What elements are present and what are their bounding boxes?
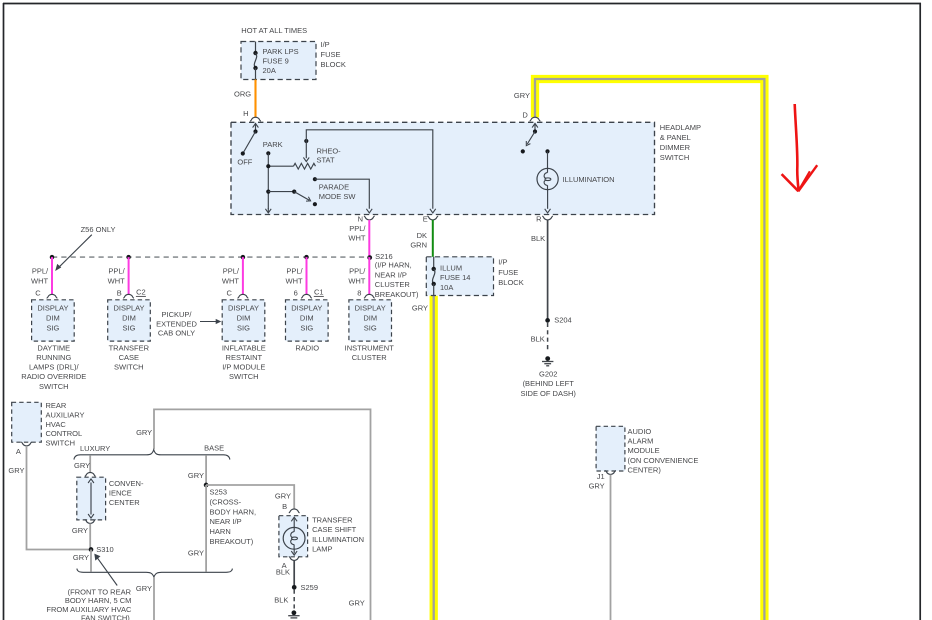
wire BLK transfer case lamp to splice S259 — [276, 561, 294, 588]
svg-text:CENTER: CENTER — [109, 498, 140, 507]
wire GRY audio alarm module off-page — [610, 475, 612, 620]
svg-text:PPL/: PPL/ — [223, 267, 240, 276]
pin D internal switch — [521, 123, 538, 153]
svg-text:DIMMER: DIMMER — [660, 143, 691, 152]
svg-text:GRY: GRY — [514, 91, 530, 100]
node junction on PPL/WHT bus (drop 2) — [126, 255, 131, 260]
pin H connector — [243, 109, 261, 121]
svg-text:8: 8 — [357, 289, 361, 298]
svg-text:HARN: HARN — [210, 527, 231, 536]
svg-text:I/P: I/P — [498, 258, 507, 267]
svg-text:RESTAINT: RESTAINT — [226, 353, 263, 362]
svg-text:SIG: SIG — [123, 324, 136, 333]
splice S216 — [367, 252, 419, 299]
svg-text:RADIO: RADIO — [295, 344, 319, 353]
svg-text:PPL/: PPL/ — [349, 224, 366, 233]
svg-text:GRY: GRY — [412, 303, 428, 312]
svg-text:G202: G202 — [539, 369, 557, 378]
svg-text:6: 6 — [294, 289, 298, 298]
svg-text:DISPLAY: DISPLAY — [37, 304, 68, 313]
svg-text:PARADE: PARADE — [319, 183, 349, 192]
label BLK (pin R) — [531, 234, 545, 243]
splice S204 — [545, 316, 571, 325]
splice S253 — [204, 483, 256, 546]
note PICKUP/EXTENDED CAB ONLY with arrow — [156, 310, 221, 338]
svg-text:GRY: GRY — [72, 526, 88, 535]
svg-text:GRY: GRY — [73, 553, 89, 562]
ground (below S259, cut at page edge) — [288, 610, 299, 618]
pin connector (convenience center top) — [85, 472, 96, 476]
svg-text:EXTENDED: EXTENDED — [156, 319, 197, 328]
svg-text:FUSE 9: FUSE 9 — [263, 57, 289, 66]
svg-text:LAMPS (DRL)/: LAMPS (DRL)/ — [29, 363, 80, 372]
svg-text:C2: C2 — [136, 287, 146, 296]
svg-text:BLK: BLK — [274, 595, 288, 604]
component box TRANSFER CASE SHIFT ILLUMINATION LAMP — [279, 516, 364, 557]
svg-text:HOT AT ALL TIMES: HOT AT ALL TIMES — [241, 26, 307, 35]
svg-text:CLUSTER: CLUSTER — [352, 353, 388, 362]
svg-text:SWITCH: SWITCH — [229, 372, 259, 381]
wire GRY S253 to merge brace — [188, 485, 206, 572]
svg-text:DK: DK — [417, 231, 427, 240]
svg-text:DIM: DIM — [300, 314, 314, 323]
svg-text:BREAKOUT): BREAKOUT) — [210, 537, 254, 546]
pin B connector (transfer case switch) — [117, 287, 146, 298]
svg-text:& PANEL: & PANEL — [660, 133, 691, 142]
svg-text:HVAC: HVAC — [46, 420, 67, 429]
wire GRY below merge brace — [136, 577, 154, 620]
svg-text:GRY: GRY — [275, 492, 291, 501]
svg-text:S216: S216 — [375, 252, 393, 261]
svg-text:R: R — [536, 214, 542, 223]
svg-text:SIG: SIG — [364, 324, 377, 333]
svg-text:J1: J1 — [597, 472, 605, 481]
svg-text:BODY HARN,: BODY HARN, — [210, 507, 257, 516]
svg-text:BREAKOUT): BREAKOUT) — [375, 290, 419, 299]
svg-text:B: B — [117, 289, 122, 298]
svg-text:ORG: ORG — [234, 90, 251, 99]
ground G202 — [520, 356, 576, 398]
svg-text:INSTRUMENT: INSTRUMENT — [345, 344, 395, 353]
label INFLATABLE … — [222, 344, 266, 382]
svg-text:FUSE: FUSE — [321, 50, 341, 59]
node junction on PPL/WHT bus (drop 1) — [50, 255, 55, 260]
svg-text:(I/P HARN,: (I/P HARN, — [375, 261, 412, 270]
wire GRY S310 to merge brace — [73, 550, 91, 572]
svg-text:GRY: GRY — [136, 428, 152, 437]
svg-text:RHEO-: RHEO- — [317, 146, 342, 155]
svg-text:RADIO OVERRIDE: RADIO OVERRIDE — [21, 372, 86, 381]
svg-text:DIM: DIM — [122, 314, 136, 323]
svg-text:10A: 10A — [440, 283, 453, 292]
annotation red arrow — [782, 104, 818, 191]
wire BLK S204 to ground (dashed) — [531, 323, 548, 352]
svg-text:DIM: DIM — [46, 314, 60, 323]
merge brace to single GRY wire — [77, 569, 233, 577]
label DK GRN — [410, 231, 427, 249]
split brace LUXURY/BASE — [74, 443, 230, 459]
pin B connector (transfer case lamp) — [282, 502, 299, 513]
parade contact to pin N — [313, 177, 372, 213]
svg-text:GRY: GRY — [188, 471, 204, 480]
svg-text:BLOCK: BLOCK — [498, 278, 523, 287]
node junction on PPL/WHT bus (drop 3) — [241, 255, 246, 260]
svg-text:GRY: GRY — [136, 584, 152, 593]
svg-text:LUXURY: LUXURY — [80, 444, 110, 453]
svg-text:SWITCH: SWITCH — [660, 153, 690, 162]
wire PPL/WHT drop to instrument cluster — [348, 257, 369, 294]
svg-text:PPL/: PPL/ — [349, 267, 366, 276]
pin J1 connector (audio alarm module) — [589, 471, 616, 491]
svg-text:(FRONT TO REAR: (FRONT TO REAR — [68, 587, 132, 596]
component box DISPLAY DIM SIG (inflatable restraint I/P module switch) — [222, 300, 265, 341]
svg-text:MODE SW: MODE SW — [319, 192, 357, 201]
headlamp & panel dimmer switch box — [231, 122, 655, 214]
svg-text:B: B — [282, 502, 287, 511]
svg-text:BLK: BLK — [531, 334, 545, 343]
svg-text:PPL/: PPL/ — [32, 267, 49, 276]
wire ORG fuse F9 to pin H — [234, 80, 256, 118]
headlamp switch OFF/PARK (from pin H) — [237, 123, 282, 166]
svg-text:GRN: GRN — [410, 240, 427, 249]
wire GRY highlighted (yellow) pin D to right edge run — [514, 79, 765, 620]
svg-text:20A: 20A — [263, 66, 276, 75]
svg-text:PPL/: PPL/ — [108, 267, 125, 276]
svg-text:WHT: WHT — [222, 277, 239, 286]
wire GRY base branch to splice S253 — [188, 455, 206, 485]
svg-text:ILLUMINATION: ILLUMINATION — [312, 535, 364, 544]
svg-text:A: A — [16, 447, 21, 456]
svg-text:Z56 ONLY: Z56 ONLY — [81, 225, 116, 234]
svg-text:SWITCH: SWITCH — [46, 438, 76, 447]
svg-text:BASE: BASE — [204, 443, 224, 452]
component box AUDIO ALARM MODULE — [596, 426, 698, 474]
pin N connector — [358, 214, 375, 223]
svg-text:AUXILIARY: AUXILIARY — [46, 411, 85, 420]
svg-text:N: N — [358, 214, 363, 223]
svg-text:DISPLAY: DISPLAY — [228, 304, 259, 313]
illumination lamp — [537, 149, 615, 213]
svg-text:GRY: GRY — [349, 598, 365, 607]
wire PPL/WHT drop to transfer case switch — [108, 257, 129, 294]
svg-text:MODULE: MODULE — [628, 446, 660, 455]
svg-text:I/P: I/P — [321, 40, 330, 49]
svg-text:SIG: SIG — [300, 324, 313, 333]
note (FRONT TO REAR BODY HARN…) with arrow to S310 — [46, 554, 132, 620]
svg-text:CLUSTER: CLUSTER — [375, 280, 411, 289]
svg-text:WHT: WHT — [348, 234, 365, 243]
feed label HOT AT ALL TIMES — [241, 26, 307, 35]
wire GRY rail to off-page right — [136, 409, 370, 620]
svg-text:S204: S204 — [554, 316, 572, 325]
svg-text:ILLUM: ILLUM — [440, 264, 462, 273]
pin E connector — [423, 214, 438, 223]
splice S259 — [292, 583, 318, 592]
svg-text:I/P MODULE: I/P MODULE — [222, 363, 265, 372]
I/P fuse block lower dashed box — [426, 257, 493, 296]
svg-text:RUNNING: RUNNING — [36, 353, 71, 362]
component box DISPLAY DIM SIG (transfer case switch) — [108, 300, 151, 341]
pin C connector (inflatable restraint I/P module switch) — [226, 289, 248, 299]
svg-text:CENTER): CENTER) — [628, 466, 662, 475]
component box DISPLAY DIM SIG (instrument cluster) — [349, 300, 392, 341]
svg-text:CONTROL: CONTROL — [46, 429, 83, 438]
svg-text:HEADLAMP: HEADLAMP — [660, 123, 701, 132]
svg-text:WHT: WHT — [108, 277, 125, 286]
wire PPL/WHT bus (dashed) — [52, 256, 369, 258]
wire GRY rear aux HVAC to splice S310 — [8, 446, 88, 550]
svg-text:WHT: WHT — [348, 277, 365, 286]
pin A connector (rear aux HVAC) — [16, 442, 32, 456]
label DAYTIME … — [21, 344, 86, 391]
svg-text:STAT: STAT — [317, 156, 335, 165]
svg-text:INFLATABLE: INFLATABLE — [222, 344, 266, 353]
svg-text:C1: C1 — [314, 287, 324, 296]
svg-text:FUSE 14: FUSE 14 — [440, 273, 470, 282]
svg-text:SWITCH: SWITCH — [39, 382, 69, 391]
wire BLK S259 to ground (dashed) — [274, 590, 294, 609]
component box DISPLAY DIM SIG (radio) — [286, 300, 329, 341]
svg-text:ALARM: ALARM — [628, 437, 654, 446]
fuse F14 ILLUM 10A — [432, 257, 471, 296]
wire PPL/WHT pin N to splice S216 — [368, 220, 370, 257]
component box REAR AUXILIARY HVAC CONTROL SWITCH — [12, 401, 85, 447]
svg-text:SIDE OF DASH): SIDE OF DASH) — [520, 389, 576, 398]
svg-text:C: C — [226, 289, 232, 298]
svg-text:BLOCK: BLOCK — [321, 60, 346, 69]
pin A connector (transfer case lamp) — [282, 557, 300, 570]
rheostat resistor — [266, 146, 341, 169]
pin connector (convenience center bottom) — [85, 520, 96, 524]
svg-text:REAR: REAR — [46, 401, 67, 410]
label RADIO … — [295, 344, 319, 353]
svg-text:GRY: GRY — [8, 466, 24, 475]
svg-text:H: H — [243, 109, 248, 118]
wire GRY S253 to transfer case lamp pin B — [206, 485, 294, 509]
svg-text:SIG: SIG — [46, 324, 59, 333]
svg-text:BLK: BLK — [531, 234, 545, 243]
svg-text:ILLUMINATION: ILLUMINATION — [563, 175, 615, 184]
I/P fuse block upper dashed box — [241, 42, 316, 80]
label HEADLAMP & PANEL DIMMER SWITCH — [660, 123, 701, 162]
svg-text:C: C — [35, 289, 41, 298]
svg-text:LAMP: LAMP — [312, 545, 332, 554]
splice S310 — [89, 545, 114, 554]
note Z56 ONLY with arrow — [55, 225, 115, 271]
pin 6 connector (radio) — [294, 287, 324, 298]
svg-text:CASE SHIFT: CASE SHIFT — [312, 525, 357, 534]
svg-text:DIM: DIM — [363, 314, 377, 323]
wire PPL/WHT drop to daytime running lamps (DRL)/radio override switch — [31, 257, 52, 294]
svg-text:PICKUP/: PICKUP/ — [161, 310, 192, 319]
rheostat wiper to pin E rail — [303, 130, 435, 213]
label INSTRUMENT … — [345, 344, 395, 363]
svg-text:(CROSS-: (CROSS- — [210, 497, 242, 506]
svg-text:(BEHIND LEFT: (BEHIND LEFT — [523, 379, 575, 388]
svg-text:FUSE: FUSE — [498, 268, 518, 277]
node junction on PPL/WHT bus (drop 4) — [304, 255, 309, 260]
svg-text:PARK LPS: PARK LPS — [263, 47, 299, 56]
svg-text:IENCE: IENCE — [109, 489, 132, 498]
fuse F9 PARK LPS 20A — [253, 42, 298, 80]
svg-text:NEAR I/P: NEAR I/P — [375, 270, 407, 279]
svg-text:DIM: DIM — [237, 314, 251, 323]
svg-text:S253: S253 — [210, 488, 228, 497]
svg-text:D: D — [522, 110, 528, 119]
pin 8 connector (instrument cluster) — [357, 289, 374, 299]
svg-text:WHT: WHT — [31, 277, 48, 286]
svg-text:DISPLAY: DISPLAY — [355, 304, 386, 313]
label I/P FUSE BLOCK (lower) — [498, 258, 523, 287]
parade mode switch — [266, 183, 356, 207]
svg-text:AUDIO: AUDIO — [628, 427, 652, 436]
label TRANSFER … — [109, 344, 150, 372]
svg-text:NEAR I/P: NEAR I/P — [210, 517, 242, 526]
svg-text:DISPLAY: DISPLAY — [113, 304, 144, 313]
wire DK GRN pin E to ILLUM fuse — [432, 220, 434, 257]
svg-text:PPL/: PPL/ — [286, 267, 303, 276]
svg-text:PARK: PARK — [263, 140, 283, 149]
wire GRY convenience center to splice S310 — [72, 524, 90, 550]
wire BLK pin R to splice S204 — [547, 220, 549, 321]
svg-text:GRY: GRY — [589, 481, 605, 490]
svg-text:FAN SWITCH): FAN SWITCH) — [81, 614, 130, 620]
component box DISPLAY DIM SIG (daytime running lamps (DRL)/radio override switch) — [32, 300, 75, 341]
wire PPL/WHT drop to inflatable restraint I/P module switch — [222, 257, 243, 294]
node PARK contact / wire to box bottom — [265, 151, 271, 213]
svg-text:BODY HARN, 5 CM: BODY HARN, 5 CM — [65, 596, 132, 605]
label PPL/WHT (pin N) — [348, 224, 366, 243]
svg-text:E: E — [423, 214, 428, 223]
svg-text:GRY: GRY — [188, 548, 204, 557]
svg-text:FROM AUXILIARY HVAC: FROM AUXILIARY HVAC — [46, 605, 132, 614]
svg-text:DISPLAY: DISPLAY — [291, 304, 322, 313]
svg-text:S259: S259 — [301, 583, 319, 592]
svg-text:SWITCH: SWITCH — [114, 363, 144, 372]
svg-text:CONVEN-: CONVEN- — [109, 479, 144, 488]
svg-text:SIG: SIG — [237, 324, 250, 333]
svg-text:S310: S310 — [96, 545, 114, 554]
svg-text:BLK: BLK — [276, 567, 290, 576]
wire GRY luxury branch to convenience center — [74, 455, 90, 472]
svg-text:OFF: OFF — [237, 157, 252, 166]
label I/P FUSE BLOCK (upper) — [321, 40, 346, 69]
svg-text:(ON CONVENIENCE: (ON CONVENIENCE — [628, 456, 699, 465]
wire PPL/WHT drop to radio — [286, 257, 307, 294]
svg-text:CAB ONLY: CAB ONLY — [158, 329, 195, 338]
wire GRY highlighted (yellow) below ILLUM fuse — [412, 296, 434, 620]
svg-text:WHT: WHT — [286, 277, 303, 286]
svg-text:GRY: GRY — [74, 461, 90, 470]
component box CONVENIENCE CENTER — [77, 477, 144, 520]
label GRY (bottom of gray rail) — [349, 598, 365, 607]
svg-text:TRANSFER: TRANSFER — [312, 516, 353, 525]
svg-text:CASE: CASE — [119, 353, 139, 362]
pin C connector (daytime running lamps (DRL)/radio override switch) — [35, 289, 57, 299]
pin D connector — [522, 110, 540, 121]
pin R connector — [536, 214, 553, 223]
svg-text:TRANSFER: TRANSFER — [109, 344, 150, 353]
svg-text:DAYTIME: DAYTIME — [37, 344, 70, 353]
